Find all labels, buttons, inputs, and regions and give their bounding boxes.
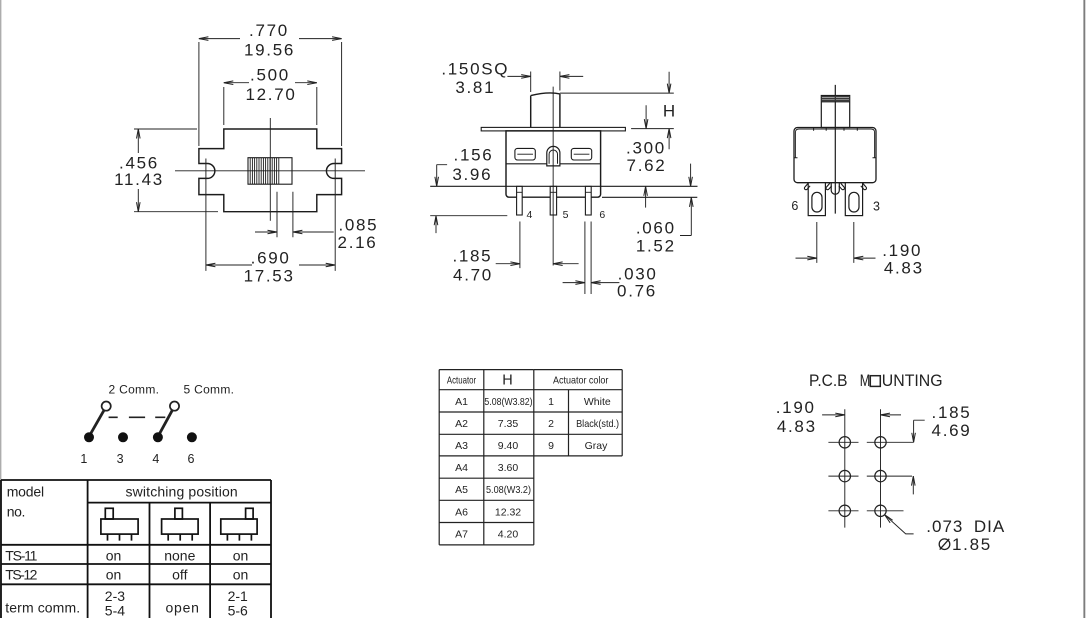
dim .185 leader and arrows [913,420,924,494]
dim .030 lines [563,222,620,295]
center line vertical (front) [552,87,554,266]
svg-text:on: on [233,567,249,583]
svg-text:4.70: 4.70 [453,266,493,285]
frame right edge [1083,0,1085,618]
svg-text:P.C.B: P.C.B [809,372,848,390]
svg-text:17.53: 17.53 [244,267,295,286]
svg-text:.190: .190 [882,241,922,260]
lever 2 [159,410,172,434]
dim .690 lines [206,159,335,271]
terminal dot 6 [187,432,197,442]
svg-text:19.56: 19.56 [244,41,295,60]
terminal 3 hole [849,192,859,212]
svg-text:model: model [7,483,44,499]
seam up arrow [645,186,647,207]
svg-text:A5: A5 [455,484,468,496]
svg-text:2: 2 [548,418,554,430]
svg-text:11.43: 11.43 [114,170,164,189]
svg-text:A3: A3 [455,440,468,452]
hole crosshair horizontals [828,442,913,511]
svg-text:2 Comm.: 2 Comm. [109,382,160,396]
svg-text:.150SQ: .150SQ [441,59,509,78]
hole r1c2 [875,437,886,448]
svg-text:.190: .190 [776,398,816,417]
frame left edge [0,0,1,618]
svg-text:.770: .770 [249,21,289,40]
svg-text:open: open [166,600,199,616]
actuator knob (front) [531,93,560,127]
svg-text:.690: .690 [251,249,291,268]
svg-text:A6: A6 [455,506,468,518]
body seam lower / base line [430,185,697,187]
svg-text:A2: A2 [455,418,468,430]
svg-text:4.83: 4.83 [884,259,924,278]
svg-text:6: 6 [188,452,195,466]
svg-text:6: 6 [791,199,798,213]
svg-text:3.81: 3.81 [455,78,495,97]
svg-text:3.60: 3.60 [498,462,519,474]
terminal dot 3 [118,432,128,442]
svg-text:off: off [172,567,187,583]
svg-text:White: White [584,396,611,408]
hole r3c2 [875,505,886,516]
flange plate [481,127,625,130]
svg-text:.300: .300 [626,139,666,158]
pin 6 [585,186,591,215]
hole r2c1 [839,470,850,481]
hole r2c2 [875,470,886,481]
svg-text:4: 4 [152,452,159,466]
dim .300 arrows [669,129,691,187]
pin 5 [550,186,556,215]
svg-text:TS-11: TS-11 [5,547,37,563]
svg-text:3.96: 3.96 [452,165,492,184]
terminal dot 4 [153,432,163,442]
svg-text:on: on [106,547,122,563]
svg-text:Actuator color: Actuator color [553,375,609,387]
svg-text:.185: .185 [452,247,492,266]
svg-text:Actuator: Actuator [447,375,477,387]
svg-text:1.85: 1.85 [952,535,992,554]
svg-text:Gray: Gray [585,440,609,452]
svg-text:.073 DIA: .073 DIA [926,517,1005,536]
dim .156 tick and arrow [437,165,448,187]
hole r3c1 [839,505,850,516]
hole crosshair verticals [845,409,881,527]
pin bottom extension left + arrow [430,216,507,233]
svg-text:2-3: 2-3 [105,588,125,604]
terminal 6 hole [812,192,822,212]
svg-text:.185: .185 [932,403,972,422]
dashed link [109,416,166,418]
svg-text:12.70: 12.70 [245,85,296,104]
svg-text:2-1: 2-1 [228,588,248,604]
svg-text:.060: .060 [636,219,676,238]
svg-text:3: 3 [117,452,124,466]
right slot [571,148,591,160]
knob (side) [821,96,849,128]
svg-text:on: on [233,547,249,563]
knob top extension right [560,92,674,94]
svg-text:5: 5 [563,209,569,221]
svg-text:4.69: 4.69 [932,421,972,440]
centerline horizontal [175,170,365,172]
svg-text:12.32: 12.32 [495,506,521,518]
dim .500 lines [224,83,317,125]
svg-text:6: 6 [599,209,605,221]
body inner seam [795,129,874,158]
svg-text:4.20: 4.20 [498,529,519,541]
svg-text:7.62: 7.62 [627,156,667,175]
dim .190 arrows (pcb) [822,414,901,416]
center dome [547,146,560,166]
center line vertical (side) [834,85,836,214]
svg-text:A4: A4 [455,462,468,474]
dim .190 lines (side view) [796,222,876,263]
center tab [831,183,839,195]
leader .073 DIA [885,515,914,534]
svg-text:5 Comm.: 5 Comm. [184,382,235,396]
terminal dot 1 [84,432,94,442]
dim H arrows [646,72,669,129]
left slot [515,148,535,160]
dim .456 lines [134,129,218,212]
svg-text:A1: A1 [455,396,468,408]
icon switch left position [101,508,138,540]
table outer and rules [1,480,271,584]
centerline vertical [269,118,271,221]
svg-text:.085: .085 [338,216,378,235]
hole r1c1 [839,437,850,448]
dim .085 lines [255,192,334,238]
svg-text:5-6: 5-6 [228,603,248,618]
label dia 1.85 [939,539,950,550]
actuator knob rect (top view) [248,158,292,185]
svg-text:none: none [164,547,195,563]
icon switch center position [162,508,199,540]
barbs [804,183,866,189]
svg-text:4.83: 4.83 [777,417,817,436]
lever 1 [90,410,104,434]
svg-text:term comm.: term comm. [5,600,80,616]
svg-text:H: H [502,373,512,389]
dim .770 lines [199,39,342,146]
common 5 circle [170,402,179,411]
svg-text:9.40: 9.40 [498,440,519,452]
svg-text:TS-12: TS-12 [5,567,37,583]
terminal 3 (right) [845,183,862,216]
svg-text:A7: A7 [455,529,468,541]
knob ribs [250,158,279,185]
svg-text:2.16: 2.16 [338,233,378,252]
svg-text:M: M [860,372,871,390]
svg-text:H: H [663,102,675,121]
svg-text:3: 3 [873,200,880,214]
switch body (front) [506,131,601,197]
pin 4 [517,186,523,215]
icon switch right position [221,508,257,540]
body side notches [794,157,876,159]
svg-text:switching position: switching position [126,484,238,500]
svg-text:7.35: 7.35 [498,418,519,430]
svg-text:1: 1 [548,396,554,408]
svg-text:on: on [106,567,122,583]
svg-text:5.08(W3.2): 5.08(W3.2) [486,484,531,496]
dim .150SQ lines [507,72,583,93]
svg-text:4: 4 [526,209,532,221]
svg-text:.500: .500 [250,66,290,85]
body seam upper [506,163,601,165]
svg-text:9: 9 [548,440,554,452]
svg-text:no.: no. [7,503,26,519]
dim .060 arrow and leader [680,197,691,235]
actuator table grid [439,370,622,545]
svg-text:5.08(W3.82): 5.08(W3.82) [484,396,532,408]
svg-text:1.52: 1.52 [636,237,676,256]
body top ticks [814,128,858,131]
body (side) [794,128,876,183]
svg-text:5-4: 5-4 [105,603,125,618]
terminal 6 (left) [808,183,825,216]
svg-text:UNTING: UNTING [882,372,943,390]
dim .185 lines [496,222,579,269]
base bottom extension [602,196,697,198]
flange top extension right [631,128,674,130]
common 2 circle [102,402,111,411]
svg-text:1: 1 [80,452,87,466]
knob serration band [821,97,849,101]
svg-text:0.76: 0.76 [617,282,657,301]
svg-text:Black(std.): Black(std.) [576,418,619,430]
svg-text:.156: .156 [454,146,494,165]
top view body outline [199,129,342,212]
